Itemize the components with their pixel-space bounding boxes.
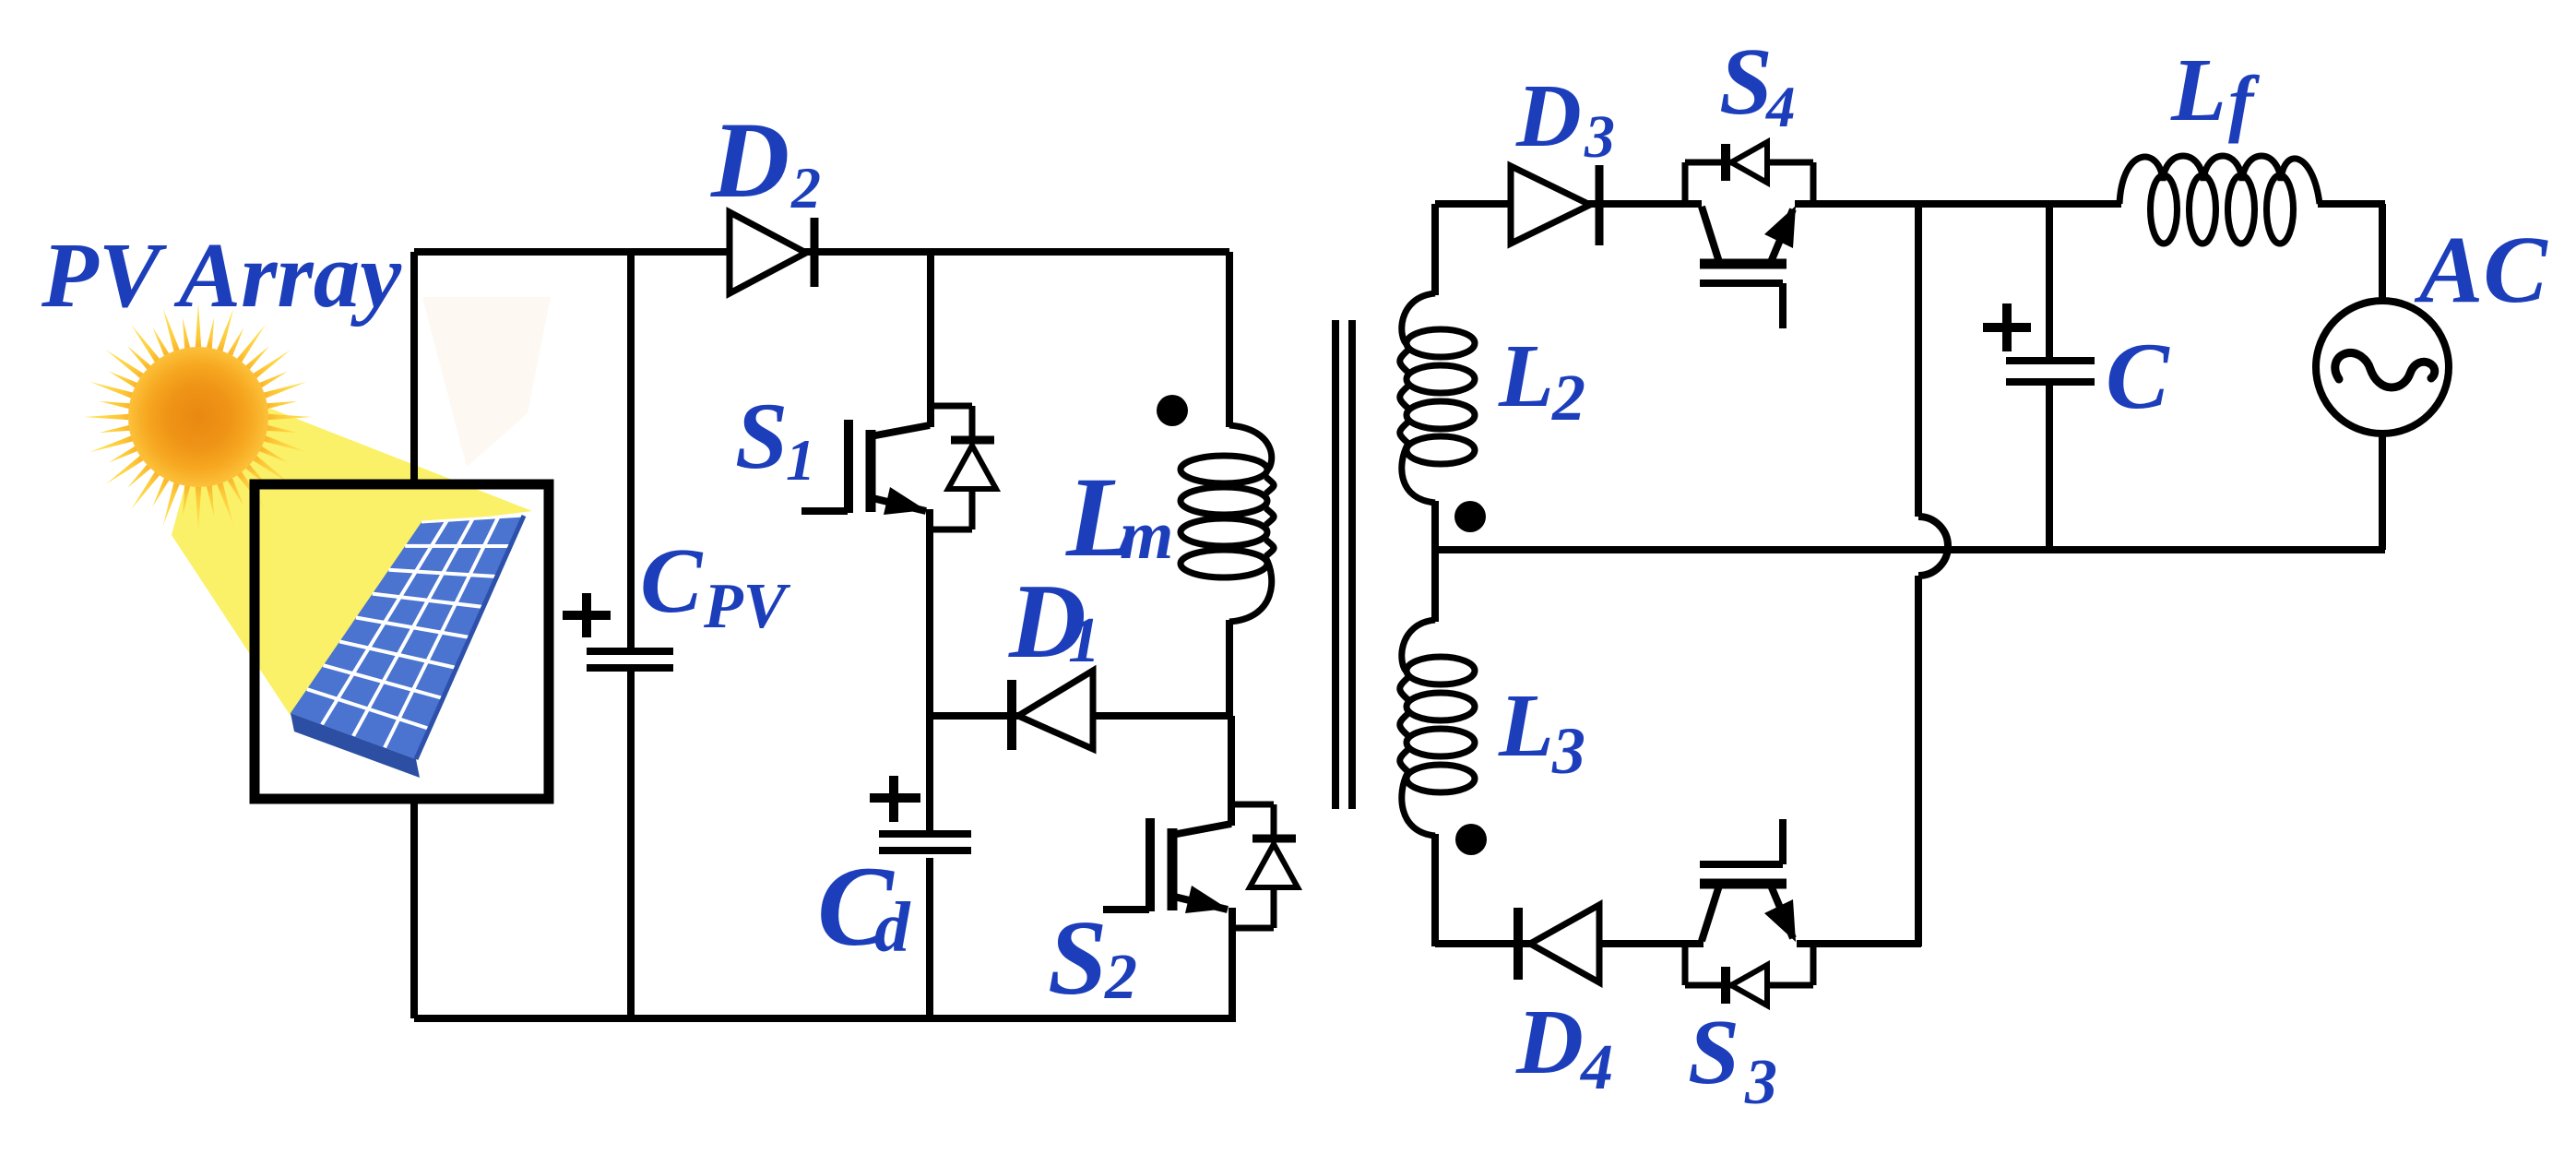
wire top rail secondary right [1795, 200, 2121, 208]
diode D1 [1012, 671, 1093, 750]
wire output right column upper [2379, 204, 2386, 304]
wire Cpv column lower [627, 672, 635, 1018]
transformer core [1335, 320, 1352, 809]
inductor Lm (primary winding) [1181, 425, 1274, 622]
capacitor C plus [1983, 303, 2031, 351]
svg-text:3: 3 [1551, 714, 1585, 788]
sun disc [128, 347, 268, 487]
svg-text:2: 2 [1104, 942, 1137, 1013]
wire L2 top [1431, 204, 1439, 295]
wire L3 bottom [1431, 834, 1439, 946]
wire bottom branch right [1797, 940, 1921, 947]
label D2 [710, 100, 821, 220]
svg-text:D: D [1515, 990, 1584, 1093]
svg-text:3: 3 [1744, 1047, 1777, 1118]
transistor S4 (IGBT with antiparallel diode) [1685, 142, 1813, 328]
capacitor Cd plates [879, 834, 971, 851]
wire left branch lower [410, 797, 418, 1018]
wire crossover column upper [1915, 204, 1922, 517]
svg-text:1: 1 [786, 427, 815, 493]
svg-text:L: L [1498, 676, 1554, 776]
svg-text:L: L [2170, 41, 2226, 140]
label AC [2414, 217, 2548, 323]
label S4 [1719, 29, 1796, 139]
svg-text:S: S [1688, 1000, 1739, 1103]
PV panel [291, 516, 524, 778]
label D4 [1515, 990, 1613, 1103]
wire Lm bottom [1226, 620, 1233, 716]
svg-text:1: 1 [1068, 605, 1100, 676]
label L2 [1498, 327, 1585, 434]
wire Cd column lower [926, 858, 933, 1018]
label L3 [1498, 676, 1585, 788]
polarity dot L3 [1455, 824, 1487, 855]
svg-text:C: C [640, 529, 704, 632]
label C [2106, 324, 2170, 429]
svg-text:4: 4 [1765, 75, 1796, 139]
wire D1 row [930, 712, 1229, 720]
wire C column upper [2046, 204, 2053, 358]
diode D3 [1511, 165, 1599, 245]
diode D2 [730, 212, 814, 293]
sun rays [84, 303, 313, 531]
transistor S2 (IGBT with antiparallel diode) [1103, 804, 1298, 928]
svg-text:L: L [1498, 327, 1554, 426]
label D1 [1008, 563, 1100, 681]
PV array box [255, 484, 549, 799]
label Cd [817, 843, 911, 970]
label Lf [2170, 41, 2261, 144]
wire L3 top [1431, 550, 1439, 622]
svg-text:d: d [874, 887, 911, 967]
wire bottom branch left [1435, 940, 1703, 947]
capacitor Cd plus [870, 776, 920, 822]
wire S2 collector [1228, 716, 1235, 826]
inductor L3 (secondary winding lower) [1400, 620, 1475, 836]
faint sun glow wedge [422, 297, 551, 467]
svg-text:D: D [1515, 66, 1582, 166]
wire Cpv column upper [627, 252, 635, 649]
wire S1 emitter / Cd column upper [926, 509, 933, 831]
label CPV [640, 529, 791, 642]
capacitor CPV plates [587, 651, 673, 668]
inductor Lf (output filter) [2119, 156, 2320, 244]
svg-text:AC: AC [2414, 217, 2548, 323]
polarity dot L2 [1454, 501, 1486, 532]
svg-text:PV Array: PV Array [41, 223, 402, 327]
wire L2 bottom [1431, 501, 1439, 553]
label PV Array [41, 223, 402, 327]
svg-text:D: D [710, 100, 789, 220]
transistor S3 (IGBT with antiparallel diode) [1685, 819, 1813, 1005]
sun light beam [172, 386, 532, 716]
svg-text:f: f [2228, 60, 2261, 144]
wire left branch upper [410, 252, 418, 486]
svg-text:S: S [1048, 899, 1108, 1017]
wire crossover hop [1918, 517, 1948, 576]
svg-text:S: S [735, 384, 788, 489]
capacitor CPV plus [563, 593, 611, 637]
wire crossover column lower [1915, 576, 1922, 946]
label S3 [1688, 1000, 1777, 1118]
capacitor C plates [2006, 361, 2095, 382]
svg-text:m: m [1120, 497, 1173, 574]
wire Lm top [1226, 252, 1233, 427]
wire top rail secondary left [1435, 200, 1702, 208]
wire bottom rail primary [414, 1015, 1236, 1022]
wire Lf to AC corner [2318, 200, 2385, 208]
svg-text:C: C [2106, 324, 2170, 429]
svg-text:S: S [1719, 29, 1773, 135]
wire top rail primary [414, 248, 1229, 256]
svg-text:2: 2 [790, 155, 821, 220]
AC source [2316, 301, 2449, 434]
wire C column lower [2046, 384, 2053, 550]
wire output right column lower [2379, 430, 2386, 550]
label Lm [1065, 454, 1173, 580]
label D3 [1515, 66, 1615, 171]
label S2 [1048, 899, 1137, 1017]
svg-text:2: 2 [1551, 361, 1585, 434]
polarity dot Lm [1157, 395, 1188, 426]
diode D4 [1518, 905, 1599, 982]
svg-text:PV: PV [703, 571, 791, 642]
wire S2 emitter [1229, 908, 1236, 1018]
transistor S1 (IGBT with antiparallel diode) [801, 406, 996, 529]
svg-text:3: 3 [1584, 103, 1615, 171]
wire S1 collector column [927, 252, 934, 427]
wire center tap rail [1435, 546, 2385, 553]
svg-text:4: 4 [1579, 1032, 1613, 1103]
inductor L2 (secondary winding upper) [1400, 293, 1475, 503]
label S1 [735, 384, 815, 493]
